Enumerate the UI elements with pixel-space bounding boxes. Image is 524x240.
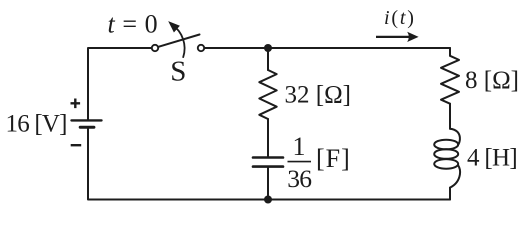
battery E long plate	[72, 119, 102, 121]
svg-text:S: S	[170, 55, 186, 87]
wire top-left from corner to switch left terminal	[88, 48, 152, 119]
node bottom junction dot	[264, 196, 272, 204]
wire resistor to inductor	[449, 104, 451, 129]
svg-text:16 [V]: 16 [V]	[6, 111, 67, 138]
switch S blade	[158, 35, 200, 47]
svg-text:[F]: [F]	[316, 144, 351, 173]
inductor L loop1	[434, 140, 458, 150]
wire top-right from switch right terminal to top-right corner	[204, 47, 450, 49]
svg-text:i(t): i(t)	[384, 7, 416, 29]
wire capacitor to bottom node	[267, 168, 269, 200]
svg-text:t = 0: t = 0	[108, 9, 159, 38]
inductor L entry arc	[450, 129, 460, 145]
svg-text:4 [H]: 4 [H]	[467, 145, 517, 172]
svg-text:8 [Ω]: 8 [Ω]	[465, 67, 519, 94]
current arrow i(t)	[376, 36, 410, 38]
switch terminal circle right	[198, 45, 204, 51]
svg-text:1: 1	[293, 132, 306, 161]
resistor R 8ohm	[441, 56, 459, 104]
inductor L exit arc	[450, 165, 460, 188]
svg-text:36: 36	[287, 164, 311, 193]
battery E short plate	[80, 126, 94, 129]
inductor L loop3	[434, 159, 458, 169]
switch S actuation arc	[172, 25, 184, 57]
battery minus sign	[71, 144, 82, 146]
switch terminal circle left	[152, 45, 158, 51]
svg-text:32 [Ω]: 32 [Ω]	[285, 82, 351, 109]
fraction bar	[288, 161, 312, 163]
wire left-bottom from battery to bottom-left corner	[88, 128, 450, 199]
wire middle branch upper	[267, 48, 269, 70]
capacitor C plates	[253, 156, 283, 159]
node top junction dot	[264, 44, 272, 52]
battery plus sign	[71, 99, 81, 109]
resistor R 32ohm	[259, 70, 276, 119]
inductor L loop2	[434, 149, 458, 159]
wire right branch upper	[449, 48, 451, 56]
wire inductor to bottom-right corner	[449, 188, 451, 200]
switch arc arrowhead	[168, 21, 180, 32]
wire resistor to capacitor	[267, 119, 269, 156]
